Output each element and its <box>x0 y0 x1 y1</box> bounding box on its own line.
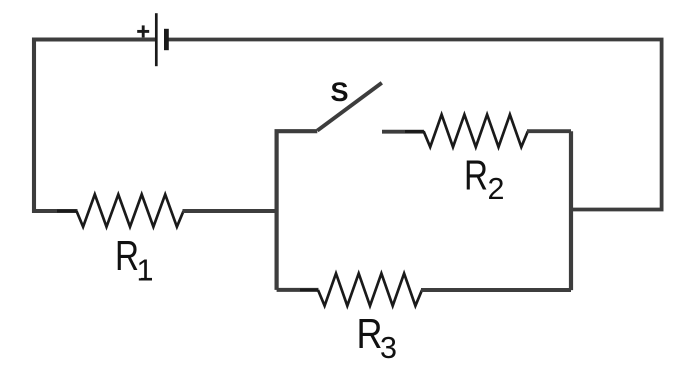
svg-text:2: 2 <box>488 172 505 206</box>
svg-text:1: 1 <box>137 253 154 287</box>
wire node A down to R3 <box>277 288 319 292</box>
wire R1 to node A <box>183 209 277 213</box>
switch S blade (open) <box>317 83 382 131</box>
resistor R2 zigzag <box>424 115 528 147</box>
battery U1 long plate (+) <box>155 13 158 66</box>
svg-text:R: R <box>115 232 139 279</box>
resistor R3 zigzag <box>318 273 422 305</box>
battery plus label <box>137 25 149 37</box>
wire R2 to inner vertical <box>527 129 571 133</box>
node A vertical wire (junction of R1 with parallel branches) <box>277 131 318 290</box>
resistor R3 leads <box>300 288 440 291</box>
battery U1 short plate (-) <box>164 29 169 50</box>
resistor R1 zigzag <box>77 194 184 226</box>
svg-text:R: R <box>357 310 383 357</box>
resistor R2 leads <box>405 130 546 133</box>
svg-text:3: 3 <box>380 331 397 365</box>
wire R3 to inner vertical <box>421 288 571 292</box>
svg-text:R: R <box>464 151 488 198</box>
wire left side: top-left, left vertical, bottom-left to R1 <box>34 40 155 212</box>
resistor R1 leads <box>57 210 201 213</box>
inner vertical wire (right side of parallel branches) <box>569 131 573 290</box>
svg-text:S: S <box>331 77 349 107</box>
switch S right contact wire to R2 <box>382 130 424 134</box>
wire top-right / right vertical / middle-right (outer loop right side) <box>169 40 662 210</box>
